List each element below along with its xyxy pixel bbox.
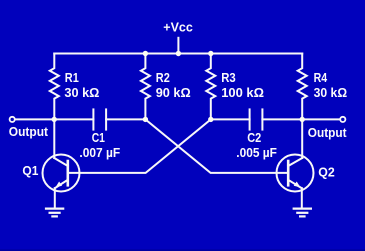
svg-text:.005 µF: .005 µF [236,145,277,160]
svg-text:R1: R1 [65,70,79,85]
wire: left output line [15,118,93,120]
wire: right output line [302,118,340,120]
terminal: right output [340,117,345,122]
svg-text:R2: R2 [156,70,170,85]
svg-text:Output: Output [308,125,347,140]
svg-text:Output: Output [9,124,49,139]
wire: C1 to R2 node [106,118,145,120]
svg-text:90 kΩ: 90 kΩ [156,85,191,100]
node: rail junction R2 [143,51,148,56]
terminal: left output [10,117,15,122]
transistor Q1 [43,155,80,192]
resistor R3 [206,54,215,120]
ground (Q1) [46,209,63,217]
ground (Q2) [294,209,311,217]
arrow: Q2 emitter (NPN) [294,182,301,188]
wire: cross-coupling R3 node to Q1 base [68,119,211,172]
wire: +Vcc stub [177,38,179,54]
wire: Q2 emitter to ground [301,188,303,208]
svg-text:Q1: Q1 [22,163,38,178]
svg-text:R3: R3 [221,70,236,85]
wire: top supply rail [54,53,302,55]
svg-text:C1: C1 [92,130,105,145]
resistor R4 [298,54,307,120]
bottom scan edge [0,249,365,251]
svg-text:Q2: Q2 [318,165,335,180]
resistor R1 [50,54,59,120]
svg-text:C2: C2 [247,130,261,145]
transistor Q2 [277,155,314,192]
wire: cross-coupling R2 node to Q2 base [145,119,288,172]
node: left output junction [52,117,57,122]
arrow: Q1 emitter (NPN) [55,182,62,188]
svg-text:+Vcc: +Vcc [163,21,193,35]
node: C1/R2 junction [143,117,148,122]
wire: C2 to R4 node [262,118,302,120]
wire: Q2 collector [301,119,303,158]
node: rail junction R3 [208,51,213,56]
wire: R3 node to C2 [211,118,250,120]
node: right output junction [300,117,305,122]
wire: Q1 collector [53,119,55,158]
node: C2/R3 junction [208,117,213,122]
capacitor C2 [249,109,251,129]
node: rail junction Vcc [176,51,181,56]
wire: Q1 emitter to ground [54,188,56,208]
svg-text:100 kΩ: 100 kΩ [221,85,264,100]
svg-text:R4: R4 [314,70,328,85]
svg-text:30 kΩ: 30 kΩ [314,85,348,100]
capacitor C1 [92,109,94,129]
svg-text:30 kΩ: 30 kΩ [64,85,99,100]
resistor R2 [141,54,150,120]
svg-text:.007 µF: .007 µF [79,145,120,160]
